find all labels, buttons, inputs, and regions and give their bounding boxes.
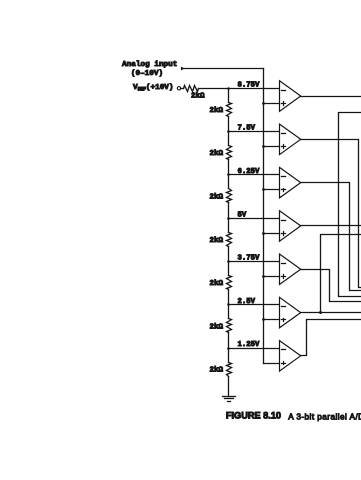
svg-text:(0–10V): (0–10V)	[131, 70, 163, 78]
svg-text:FIGURE 8.10: FIGURE 8.10	[226, 410, 281, 420]
svg-text:2kΩ: 2kΩ	[209, 150, 223, 158]
svg-text:Analog input: Analog input	[122, 61, 177, 69]
svg-text:2kΩ: 2kΩ	[209, 323, 223, 331]
svg-text:3.75V: 3.75V	[238, 255, 261, 263]
svg-text:7.5V: 7.5V	[238, 125, 256, 133]
svg-text:6.25V: 6.25V	[238, 168, 261, 176]
svg-text:A 3-bit parallel A/D converter: A 3-bit parallel A/D converter	[288, 412, 361, 421]
svg-text:5V: 5V	[238, 211, 247, 219]
svg-text:2kΩ: 2kΩ	[209, 280, 223, 288]
svg-text:2kΩ: 2kΩ	[209, 367, 223, 375]
svg-text:2kΩ: 2kΩ	[209, 107, 223, 115]
svg-text:8.75V: 8.75V	[238, 81, 261, 89]
svg-text:2kΩ: 2kΩ	[209, 194, 223, 202]
svg-text:2kΩ: 2kΩ	[209, 237, 223, 245]
svg-text:2kΩ: 2kΩ	[191, 92, 205, 100]
svg-text:1.25V: 1.25V	[238, 341, 261, 349]
svg-text:2.5V: 2.5V	[238, 298, 256, 306]
